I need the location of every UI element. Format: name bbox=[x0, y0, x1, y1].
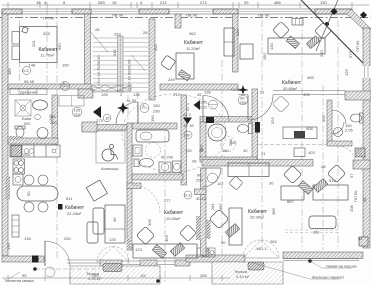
svg-text:Дрешник: Дрешник bbox=[20, 90, 37, 95]
washer bbox=[173, 161, 182, 173]
core wc left wall bbox=[200, 122, 206, 160]
svg-text:D-3: D-3 bbox=[22, 68, 29, 73]
svg-text:130: 130 bbox=[185, 148, 192, 153]
svg-text:28: 28 bbox=[95, 27, 100, 32]
svg-text:280: 280 bbox=[319, 50, 324, 57]
svg-text:2.05: 2.05 bbox=[345, 128, 354, 133]
svg-text:485: 485 bbox=[307, 75, 314, 80]
right wall thick chunk bbox=[353, 160, 370, 169]
svg-text:21: 21 bbox=[260, 90, 265, 95]
svg-text:3.10 м²: 3.10 м² bbox=[236, 274, 250, 279]
room6 left wall chunk bbox=[195, 189, 207, 195]
svg-text:362: 362 bbox=[189, 31, 196, 36]
hall tag 80 circle bbox=[184, 131, 192, 139]
room3 printer table bbox=[292, 19, 303, 26]
svg-text:Б: Б bbox=[63, 81, 66, 86]
core wc turning circle bbox=[221, 137, 236, 152]
svg-text:Асансьор: Асансьор bbox=[101, 166, 119, 171]
svg-text:ПВ 90: ПВ 90 bbox=[112, 13, 124, 18]
svg-text:1Р 1б: 1Р 1б bbox=[183, 123, 194, 128]
svg-text:36: 36 bbox=[112, 217, 117, 222]
svg-text:180: 180 bbox=[222, 148, 229, 153]
toilet bbox=[15, 126, 25, 138]
axis bubble left bbox=[61, 82, 70, 91]
corridor corner chunk bbox=[78, 89, 93, 98]
planter bbox=[103, 264, 122, 272]
bath1 right wall bbox=[52, 95, 58, 144]
svg-text:125: 125 bbox=[109, 237, 116, 242]
left cluster: desk bbox=[229, 208, 242, 245]
pier 1 bbox=[2, 9, 22, 14]
svg-text:D-3: D-3 bbox=[184, 193, 191, 198]
svg-text:130: 130 bbox=[320, 0, 327, 5]
svg-text:136: 136 bbox=[6, 243, 11, 250]
right cluster: desk2 bbox=[313, 185, 348, 200]
pier 5 bbox=[315, 9, 352, 14]
svg-text:180: 180 bbox=[199, 145, 204, 152]
svg-text:17ст 16.7б/30.00: 17ст 16.7б/30.00 bbox=[96, 55, 101, 86]
svg-text:150: 150 bbox=[62, 63, 69, 68]
room2-room3 wall bbox=[233, 14, 239, 72]
svg-text:10.45м²: 10.45м² bbox=[166, 216, 181, 221]
4-point star bbox=[117, 102, 129, 114]
left wall bbox=[2, 14, 8, 256]
room3 cabinet left bbox=[240, 44, 253, 59]
stub wall top room2 bbox=[175, 14, 181, 28]
toilet bbox=[134, 158, 154, 167]
svg-text:210: 210 bbox=[74, 112, 81, 117]
stair treads bbox=[93, 38, 148, 92]
washbasin bbox=[294, 148, 305, 157]
stair arrow 1 bbox=[90, 31, 109, 53]
svg-text:28: 28 bbox=[321, 164, 326, 169]
section diagonal line bbox=[301, 0, 363, 63]
bath2 right wall bbox=[181, 95, 187, 185]
door arcs bbox=[332, 110, 346, 124]
stair right wall bbox=[149, 19, 155, 100]
section node dot bbox=[325, 22, 329, 26]
svg-text:-WD-1-: -WD-1- bbox=[255, 246, 269, 251]
core wc black column bbox=[206, 117, 214, 123]
svg-text:11.70м²: 11.70м² bbox=[41, 53, 55, 58]
oval tub bbox=[208, 124, 226, 141]
svg-text:345: 345 bbox=[112, 49, 117, 56]
top wall band bbox=[2, 9, 352, 14]
svg-text:38: 38 bbox=[362, 197, 367, 202]
top dimension line bbox=[2, 2, 369, 8]
svg-text:30.80м²: 30.80м² bbox=[283, 86, 298, 91]
svg-text:667: 667 bbox=[287, 199, 294, 204]
svg-text:136: 136 bbox=[204, 90, 211, 95]
dashed arc bbox=[132, 185, 160, 213]
bottom right window lines bbox=[283, 259, 359, 261]
room3 chair1 bbox=[273, 22, 290, 39]
callout 3 bbox=[8, 272, 20, 279]
fridge dark bbox=[11, 146, 22, 157]
svg-text:ПВ 90: ПВ 90 bbox=[258, 13, 270, 18]
svg-text:386: 386 bbox=[271, 208, 276, 215]
lower cabinet bbox=[13, 174, 23, 185]
svg-text:150: 150 bbox=[153, 103, 160, 108]
room2 wardrobe bbox=[224, 28, 234, 56]
svg-text:385: 385 bbox=[7, 68, 12, 75]
wall dot right bbox=[308, 259, 312, 263]
svg-text:950: 950 bbox=[57, 43, 62, 50]
bath3 bottom wall bbox=[327, 141, 352, 146]
marker circle bbox=[35, 114, 41, 120]
black column hall bbox=[255, 122, 260, 133]
svg-text:281: 281 bbox=[210, 203, 215, 210]
svg-text:204: 204 bbox=[228, 139, 233, 146]
kitchen bottom window bbox=[67, 260, 100, 263]
hall stub wall bbox=[127, 183, 141, 189]
svg-text:573: 573 bbox=[348, 51, 353, 58]
D-3 bubble bbox=[184, 191, 192, 199]
svg-text:274: 274 bbox=[200, 0, 207, 5]
svg-text:126: 126 bbox=[101, 92, 108, 97]
tag circle bbox=[208, 173, 218, 183]
section dot bottom bbox=[33, 267, 37, 271]
kitchenette bbox=[355, 148, 365, 157]
svg-text:ПП 90: ПП 90 bbox=[353, 190, 358, 202]
svg-text:364: 364 bbox=[164, 235, 169, 242]
sofa lower bbox=[87, 222, 98, 243]
keyboards bbox=[152, 245, 166, 259]
chairs bbox=[24, 175, 34, 185]
svg-text:+1.30: +1.30 bbox=[126, 98, 137, 103]
svg-text:26.30м²: 26.30м² bbox=[250, 215, 265, 220]
room1 bottom wall bbox=[8, 84, 91, 89]
sink bbox=[334, 128, 343, 137]
svg-text:285: 285 bbox=[200, 273, 207, 278]
svg-text:249: 249 bbox=[168, 77, 175, 82]
tub bbox=[136, 130, 169, 142]
svg-text:Железен парапет: Железен парапет bbox=[312, 275, 345, 280]
left wall radiator bbox=[6, 176, 11, 200]
svg-text:90 200: 90 200 bbox=[161, 155, 174, 160]
svg-text:94: 94 bbox=[358, 236, 363, 241]
svg-text:260: 260 bbox=[92, 273, 99, 278]
dashed door arc to room6 bbox=[338, 146, 355, 163]
svg-text:200: 200 bbox=[240, 100, 247, 105]
axis line PV90 horizontal bbox=[0, 17, 371, 19]
sofa vertical bbox=[93, 208, 104, 234]
chair2 bbox=[327, 164, 345, 182]
svg-text:130: 130 bbox=[269, 43, 274, 50]
stair left wall bbox=[85, 14, 91, 90]
room3 keyboard2 bbox=[306, 36, 319, 49]
svg-text:28: 28 bbox=[143, 30, 148, 35]
svg-text:361: 361 bbox=[313, 230, 320, 235]
svg-text:283: 283 bbox=[270, 239, 277, 244]
svg-text:200: 200 bbox=[48, 114, 53, 121]
bath3 left wall bbox=[327, 100, 332, 145]
desk bbox=[133, 244, 197, 258]
svg-text:230: 230 bbox=[153, 109, 160, 114]
svg-text:325: 325 bbox=[270, 117, 275, 124]
door arc room6 bbox=[202, 168, 221, 187]
svg-text:136: 136 bbox=[24, 236, 31, 241]
bottom-left column bbox=[32, 256, 39, 263]
right wall window gap bbox=[363, 66, 371, 78]
room3 chair2 bbox=[315, 23, 332, 40]
hall door arc1 (right) bbox=[248, 95, 273, 120]
stair landing railing bbox=[92, 85, 131, 91]
shower bbox=[15, 100, 31, 116]
room6 kitchenette bbox=[197, 248, 215, 257]
svg-text:ПП 90: ПП 90 bbox=[355, 40, 360, 52]
chamfer wall bbox=[347, 9, 371, 33]
svg-text:30: 30 bbox=[269, 181, 274, 186]
room2 chair bbox=[160, 55, 175, 70]
svg-text:Тоалетна мивка: Тоалетна мивка bbox=[4, 278, 34, 283]
dining table bbox=[17, 186, 58, 201]
extra dims bbox=[7, 27, 324, 278]
svg-text:120: 120 bbox=[235, 29, 240, 36]
bottom right corner column bbox=[359, 237, 368, 246]
svg-text:1б: 1б bbox=[105, 116, 110, 121]
svg-text:26: 26 bbox=[197, 92, 202, 97]
At1 triangle bbox=[194, 100, 201, 110]
bath2 bottom wall bbox=[132, 174, 183, 180]
top desks bbox=[228, 163, 269, 177]
right cluster: desk1 bbox=[281, 186, 304, 200]
couch bbox=[309, 216, 336, 229]
kitchen-room5 wall bbox=[127, 123, 132, 250]
room4 patio double door bbox=[97, 247, 113, 263]
svg-text:15: 15 bbox=[112, 0, 117, 5]
bottom wall under room5 bbox=[186, 255, 245, 262]
room3 keyboard1 bbox=[286, 36, 299, 49]
dark strip bbox=[8, 136, 20, 140]
bottom mid wall piers bbox=[100, 260, 122, 266]
terrace door bbox=[44, 241, 46, 266]
sofa corner rotated bbox=[86, 180, 107, 201]
top dimension numbers bbox=[36, 0, 327, 5]
core wc top wall bbox=[200, 117, 257, 123]
svg-text:90: 90 bbox=[26, 191, 31, 196]
pier 2 bbox=[72, 9, 91, 14]
kb1 bbox=[298, 181, 312, 195]
svg-text:Линия на короза: Линия на короза bbox=[326, 264, 357, 269]
svg-text:123: 123 bbox=[135, 247, 142, 252]
room6 left wall bbox=[201, 168, 207, 255]
svg-text:328: 328 bbox=[43, 31, 50, 36]
second section segment bbox=[316, 0, 338, 51]
room3 desk bbox=[268, 38, 325, 54]
svg-text:28: 28 bbox=[192, 159, 197, 164]
svg-text:362: 362 bbox=[321, 115, 326, 122]
svg-text:403: 403 bbox=[308, 150, 315, 155]
room3 diamond bbox=[273, 96, 290, 113]
chair1 bbox=[283, 165, 301, 183]
wheelchair symbol bbox=[102, 145, 118, 162]
bottom wall right part bbox=[283, 252, 363, 259]
bath2 turning circle bbox=[146, 143, 161, 158]
small circle tag bbox=[103, 114, 111, 122]
counter row bbox=[10, 145, 60, 157]
planter bbox=[248, 262, 264, 270]
sink square bbox=[159, 162, 171, 173]
door tag circle bath1 bbox=[72, 107, 82, 117]
callout 1 bbox=[310, 261, 322, 268]
svg-text:260: 260 bbox=[262, 53, 267, 60]
core wc right wall bbox=[252, 89, 258, 162]
washer bbox=[133, 145, 142, 156]
core wc bottom wall bbox=[200, 157, 257, 162]
console table right hall bbox=[283, 127, 317, 139]
callout 2 bbox=[250, 262, 310, 279]
radiators on wall bbox=[197, 220, 201, 239]
chairs bbox=[136, 226, 154, 244]
left cluster: keyboard bbox=[225, 224, 239, 238]
bath3 top wall bbox=[345, 91, 371, 100]
hall door tag bbox=[238, 95, 248, 105]
room2 keyboard bbox=[178, 70, 190, 81]
right wall bbox=[363, 28, 370, 248]
svg-text:40: 40 bbox=[243, 148, 248, 153]
kb2 bbox=[313, 179, 327, 193]
svg-text:98 45: 98 45 bbox=[24, 79, 35, 84]
svg-text:405: 405 bbox=[303, 92, 310, 97]
radiator bbox=[196, 216, 201, 240]
svg-text:263: 263 bbox=[114, 32, 121, 37]
svg-text:277: 277 bbox=[164, 198, 171, 203]
entrance door arc bbox=[116, 102, 138, 124]
bath2 top wall bbox=[132, 123, 177, 129]
svg-text:ПП 90: ПП 90 bbox=[43, 16, 55, 21]
wardrobe row bbox=[10, 89, 47, 95]
svg-text:200: 200 bbox=[196, 178, 203, 183]
room6 top wall bbox=[202, 160, 313, 167]
chamfer black column 1 bbox=[330, 8, 337, 15]
sink circles bbox=[24, 149, 29, 154]
svg-text:250: 250 bbox=[64, 236, 71, 241]
svg-text:29: 29 bbox=[244, 0, 249, 5]
svg-text:WC: WC bbox=[24, 121, 31, 126]
svg-text:387: 387 bbox=[218, 203, 223, 210]
pier 4 bbox=[213, 9, 238, 14]
dashed boundary line bbox=[258, 144, 330, 146]
svg-text:80: 80 bbox=[186, 133, 191, 138]
svg-text:485: 485 bbox=[274, 0, 281, 5]
bookshelf bbox=[105, 205, 125, 243]
svg-text:117: 117 bbox=[217, 181, 224, 186]
label icon bbox=[58, 204, 63, 210]
room2 bottom wall bbox=[160, 84, 238, 90]
top chair bbox=[229, 176, 243, 190]
nightstand 1 bbox=[12, 32, 20, 45]
stair stringer bbox=[118, 36, 124, 92]
svg-text:208: 208 bbox=[349, 205, 354, 212]
svg-text:148: 148 bbox=[29, 63, 36, 68]
svg-text:811: 811 bbox=[66, 196, 73, 201]
terrace round bbox=[45, 267, 55, 277]
vertical axis dash-dot lines bbox=[47, 8, 338, 282]
svg-text:201: 201 bbox=[31, 40, 36, 47]
corridor wall chunk bbox=[82, 122, 97, 132]
bath1 bottom wall bbox=[8, 138, 58, 144]
svg-text:111: 111 bbox=[140, 273, 147, 278]
svg-text:302: 302 bbox=[153, 44, 158, 51]
svg-text:95: 95 bbox=[22, 273, 27, 278]
svg-text:210: 210 bbox=[200, 105, 207, 110]
toilet bbox=[238, 124, 253, 134]
dashed curtain lines bbox=[285, 229, 340, 231]
stove bbox=[13, 159, 25, 174]
tub bbox=[33, 100, 48, 110]
corridor closet bbox=[59, 96, 84, 107]
svg-text:21: 21 bbox=[261, 151, 266, 156]
svg-text:212: 212 bbox=[160, 0, 167, 5]
stair arrow 2 bbox=[131, 55, 145, 71]
svg-text:АТ 1: АТ 1 bbox=[185, 102, 190, 111]
svg-text:273: 273 bbox=[96, 118, 103, 123]
sink bbox=[37, 128, 48, 139]
hall door arc2 (left) bbox=[203, 96, 229, 122]
room2 desk bbox=[176, 53, 194, 79]
chamfer black column 2 bbox=[360, 11, 367, 18]
svg-text:57: 57 bbox=[349, 173, 354, 178]
pier 3 bbox=[139, 9, 169, 14]
bed bbox=[20, 27, 58, 63]
svg-text:15: 15 bbox=[36, 0, 41, 5]
svg-text:136: 136 bbox=[133, 92, 140, 97]
svg-text:11.20м²: 11.20м² bbox=[186, 46, 200, 51]
kitchen wall radiator bbox=[127, 239, 131, 250]
svg-text:305: 305 bbox=[147, 219, 152, 226]
hall top thin wall bbox=[238, 91, 345, 95]
svg-text:212: 212 bbox=[173, 92, 180, 97]
toilet bbox=[351, 113, 364, 123]
svg-text:30 12: 30 12 bbox=[196, 196, 207, 201]
svg-text:90: 90 bbox=[221, 240, 226, 245]
svg-text:190: 190 bbox=[150, 115, 155, 122]
bottom-left wall bbox=[2, 256, 44, 262]
svg-text:519: 519 bbox=[329, 178, 336, 183]
left cluster: chair bbox=[209, 209, 229, 229]
axis bubble D-3 bbox=[23, 67, 31, 75]
bed axis dashed bbox=[19, 20, 21, 84]
entrance arrow black bbox=[93, 106, 101, 118]
corridor-kitchen wall bbox=[82, 125, 127, 131]
nightstand 2 bbox=[12, 46, 20, 60]
shelf left bbox=[12, 215, 19, 237]
svg-text:208: 208 bbox=[23, 152, 30, 157]
accessibility turning ellipse bbox=[122, 94, 226, 172]
svg-text:Ат 2: Ат 2 bbox=[183, 112, 192, 117]
svg-text:ПВ 90: ПВ 90 bbox=[186, 13, 198, 18]
svg-text:126: 126 bbox=[344, 69, 349, 76]
svg-text:22.43м²: 22.43м² bbox=[67, 211, 82, 216]
svg-text:283: 283 bbox=[98, 0, 105, 5]
